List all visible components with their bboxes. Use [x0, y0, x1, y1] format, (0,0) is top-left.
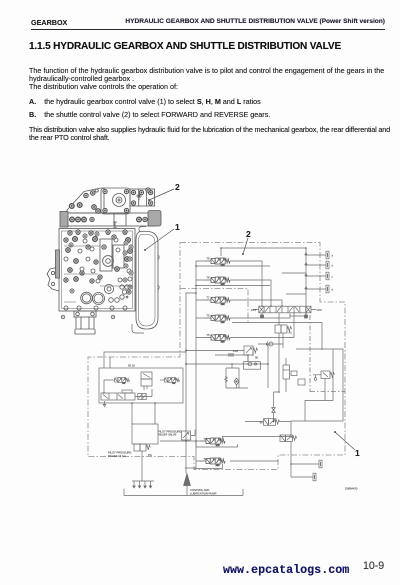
svg-text:T8: T8: [206, 275, 210, 279]
svg-text:2: 2: [175, 182, 180, 192]
svg-text:T3: T3: [203, 437, 207, 441]
svg-text:D0884430: D0884430: [345, 487, 358, 491]
svg-text:RELIEF VALVE: RELIEF VALVE: [158, 433, 177, 437]
svg-text:LUBRICATION PUMP: LUBRICATION PUMP: [190, 492, 217, 496]
svg-text:2: 2: [246, 229, 251, 239]
svg-text:RELIEF 16 bar: RELIEF 16 bar: [108, 454, 126, 458]
svg-text:PG: PG: [148, 453, 152, 457]
svg-text:1: 1: [175, 222, 180, 232]
svg-text:T9: T9: [206, 313, 210, 317]
svg-text:PILOT PRESSURE: PILOT PRESSURE: [108, 451, 131, 455]
svg-text:T4: T4: [203, 457, 207, 461]
svg-text:CONTROL AND: CONTROL AND: [190, 488, 209, 492]
svg-text:T7: T7: [206, 295, 210, 299]
svg-text:CP2: CP2: [317, 308, 323, 312]
svg-text:T6: T6: [206, 256, 210, 260]
svg-text:A1: A1: [289, 330, 293, 334]
svg-text:90: 90: [260, 421, 263, 425]
svg-text:T5: T5: [206, 333, 210, 337]
svg-text:CP8: CP8: [233, 349, 239, 353]
svg-text:b: b: [332, 264, 334, 268]
svg-text:CP5: CP5: [251, 308, 257, 312]
svg-text:a: a: [332, 255, 334, 258]
svg-text:1: 1: [355, 448, 360, 458]
svg-text:d: d: [332, 288, 334, 292]
svg-text:c: c: [332, 276, 334, 279]
svg-text:90.10: 90.10: [128, 364, 135, 368]
svg-text:90: 90: [255, 356, 258, 360]
